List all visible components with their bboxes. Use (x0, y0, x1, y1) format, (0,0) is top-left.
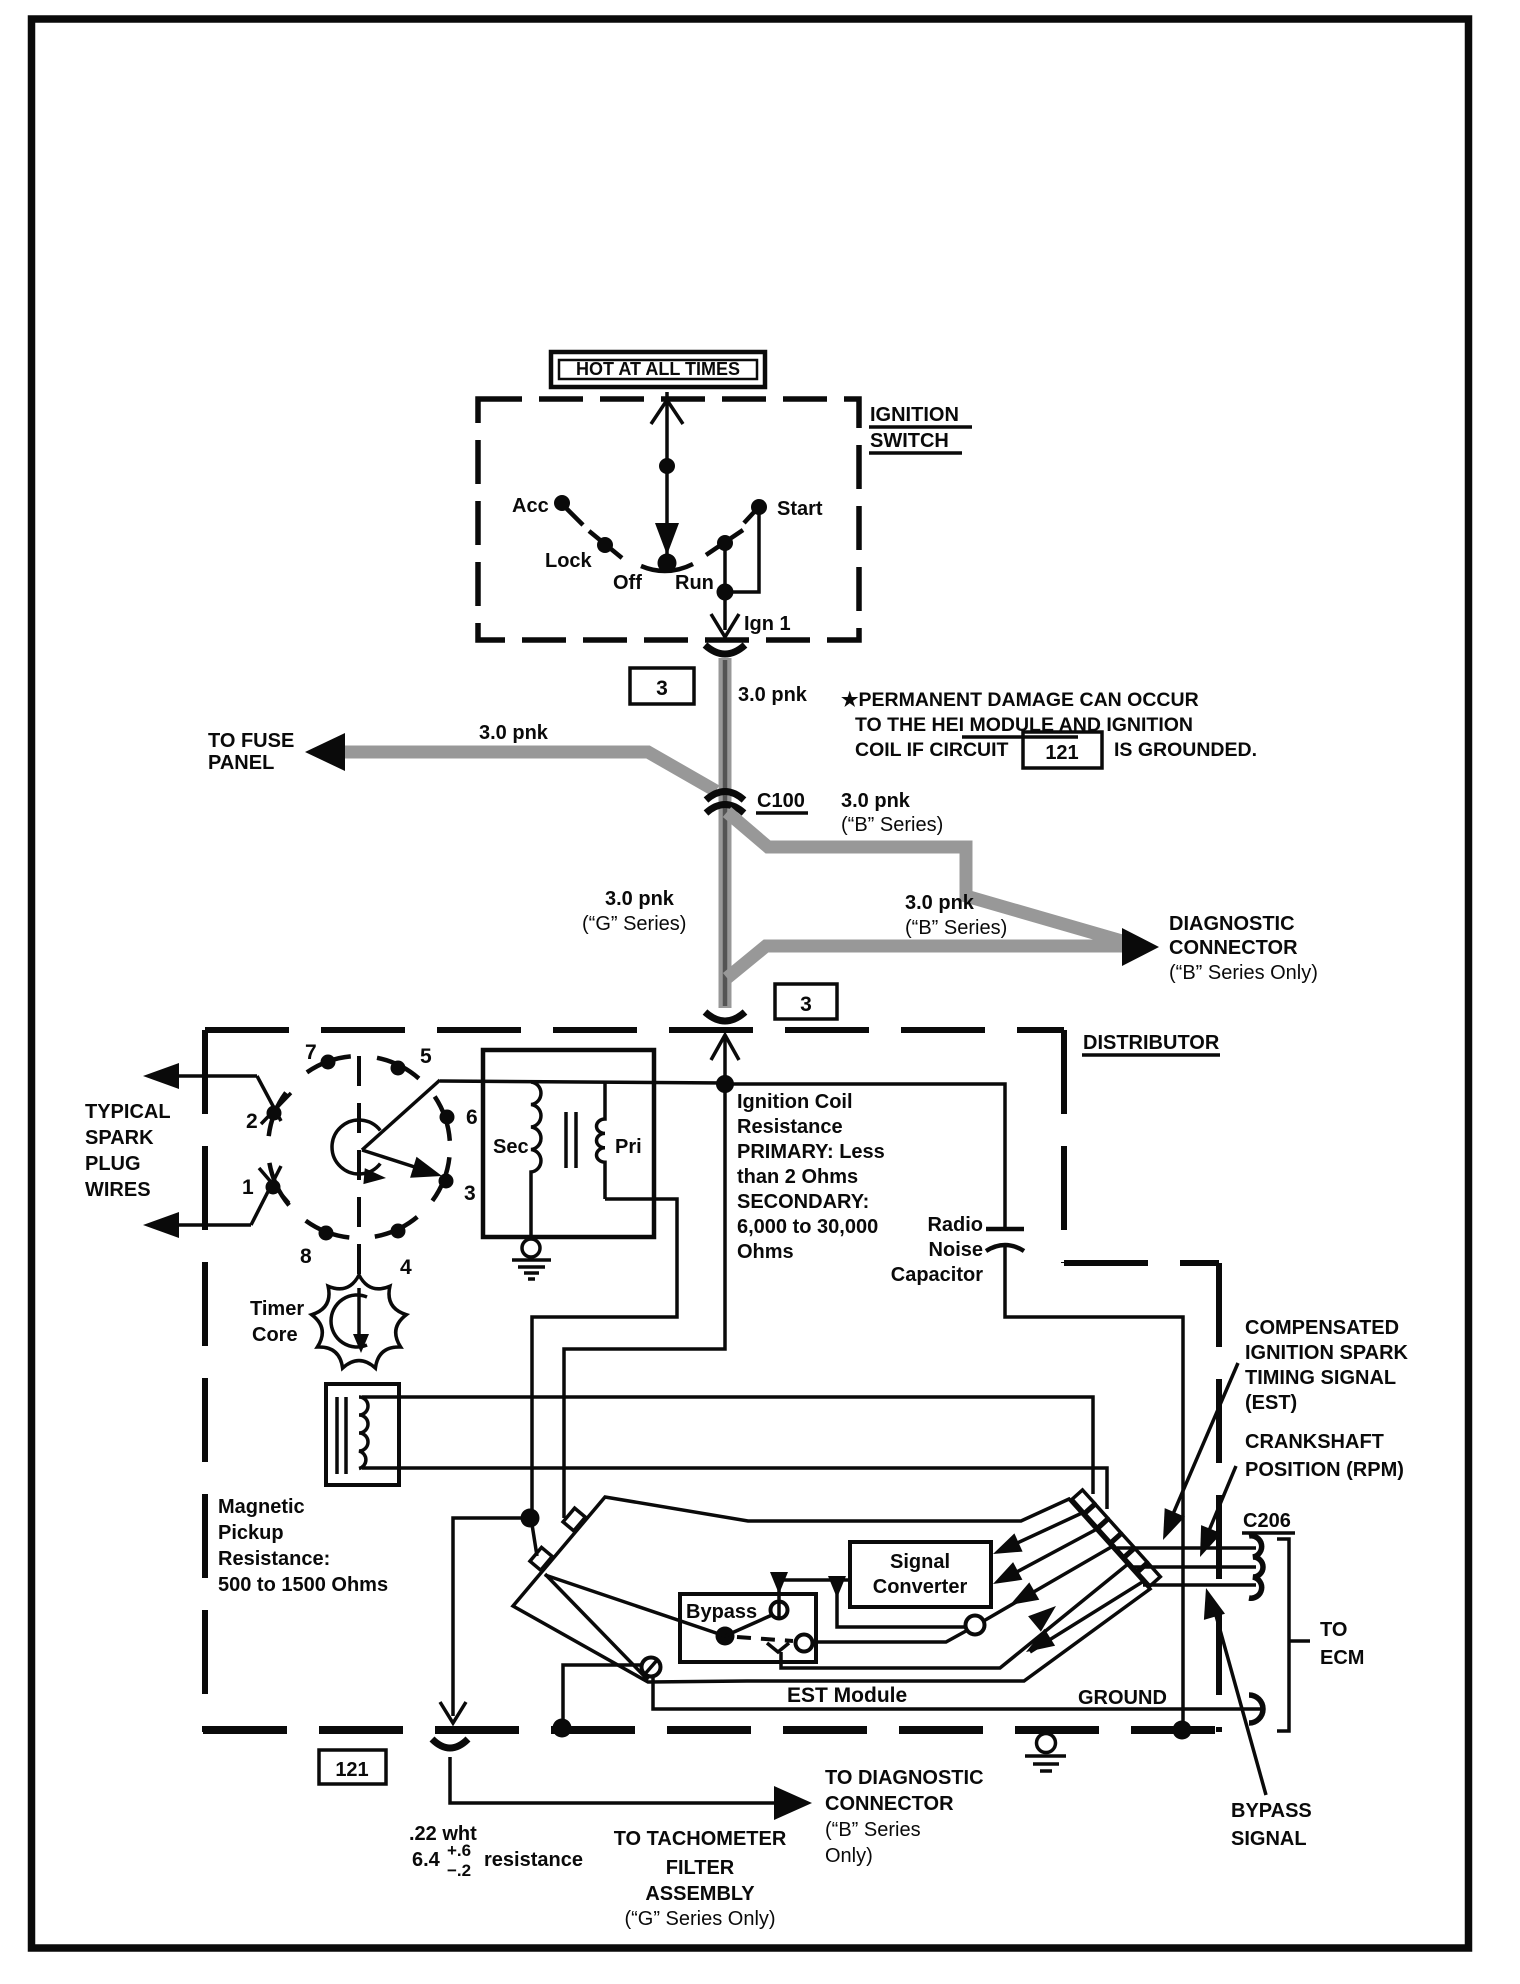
svg-text:3: 3 (800, 993, 812, 1016)
svg-text:2: 2 (246, 1110, 258, 1133)
cap terminal 7 (321, 1055, 336, 1070)
contact Run (717, 535, 733, 551)
wire coil primary to EST tab (532, 1199, 677, 1516)
svg-text:Ohms: Ohms (737, 1241, 794, 1263)
svg-text:TO DIAGNOSTIC: TO DIAGNOSTIC (825, 1767, 984, 1789)
EST module outline (513, 1497, 1150, 1682)
cap terminal 1 (266, 1180, 281, 1195)
connector at Ign 1 (705, 645, 745, 654)
svg-text:DIAGNOSTIC: DIAGNOSTIC (1169, 913, 1295, 935)
wire 3.0 pnk ignition feed (shaded) (719, 658, 732, 1008)
wire Run to Ign1 with Start branch (723, 543, 727, 630)
ground at coil secondary (512, 1239, 551, 1279)
wire EST pin to signal converter lower (1000, 1529, 1097, 1581)
spark plug wire upper (168, 1074, 257, 1078)
terminal circle on EST signal wire (966, 1616, 985, 1635)
svg-text:Pri: Pri (615, 1136, 642, 1158)
svg-text:Sec: Sec (493, 1136, 529, 1158)
node ignition feed junction (716, 1075, 734, 1093)
connector C206 sockets (1249, 1536, 1263, 1598)
ground screw terminal (642, 1658, 661, 1677)
ignition switch dashed box (478, 399, 859, 640)
svg-text:★PERMANENT DAMAGE CAN OCCUR: ★PERMANENT DAMAGE CAN OCCUR (841, 689, 1199, 711)
connector C100 (706, 792, 744, 801)
svg-text:−.2: −.2 (447, 1861, 471, 1880)
svg-text:7: 7 (305, 1041, 317, 1064)
bypass box (680, 1594, 816, 1662)
wire bypass feed from module tab (545, 1575, 725, 1636)
svg-text:5: 5 (420, 1045, 432, 1068)
arrow spark plug wire upper (143, 1063, 179, 1089)
wire junction stub to pickup tab (531, 1518, 537, 1556)
svg-text:PANEL: PANEL (208, 752, 274, 774)
svg-text:IS GROUNDED.: IS GROUNDED. (1114, 739, 1257, 761)
node capacitor ground on housing (1173, 1721, 1192, 1740)
note permanent damage (841, 689, 1257, 768)
connector at distributor (705, 1012, 745, 1021)
wire to fuse panel (shaded) (340, 752, 716, 791)
svg-text:Off: Off (613, 572, 642, 594)
node run-start junction (717, 584, 734, 601)
svg-text:Run: Run (675, 572, 714, 594)
svg-text:C206: C206 (1243, 1510, 1291, 1532)
svg-text:IGNITION SPARK: IGNITION SPARK (1245, 1342, 1409, 1364)
svg-text:Pickup: Pickup (218, 1522, 284, 1544)
capacitor C radio noise (986, 1227, 1024, 1232)
wire pickup lead lower (362, 1468, 1107, 1509)
wire coil feed from rotor line to junction (440, 1081, 727, 1083)
svg-text:HOT AT ALL TIMES: HOT AT ALL TIMES (576, 359, 740, 379)
svg-text:Ign 1: Ign 1 (744, 613, 791, 635)
svg-text:Bypass: Bypass (686, 1601, 757, 1623)
svg-text:Noise: Noise (929, 1239, 983, 1261)
svg-text:Core: Core (252, 1324, 298, 1346)
ground symbol on housing (1025, 1734, 1066, 1772)
svg-text:(“G” Series Only): (“G” Series Only) (624, 1908, 775, 1930)
svg-text:COMPENSATED: COMPENSATED (1245, 1317, 1399, 1339)
svg-text:Signal: Signal (890, 1551, 950, 1573)
bypass contact A (771, 1602, 788, 1619)
node coil primary wire junction (521, 1509, 540, 1528)
arrow spark plug wire lower (143, 1212, 179, 1238)
svg-text:WIRES: WIRES (85, 1179, 151, 1201)
pointer EST label to wire (1167, 1363, 1238, 1528)
svg-text:POSITION (RPM): POSITION (RPM) (1245, 1459, 1404, 1481)
svg-text:3.0 pnk: 3.0 pnk (738, 684, 808, 706)
svg-text:6: 6 (466, 1106, 478, 1129)
contact Off (658, 554, 677, 573)
arrow to diagnostic connector (1122, 928, 1159, 966)
circuit 3 box lower (775, 984, 837, 1019)
svg-text:than 2 Ohms: than 2 Ohms (737, 1166, 858, 1188)
spark plug wire lower (168, 1223, 251, 1227)
arrow Ign 1 down (711, 614, 739, 637)
bypass common tick (767, 1643, 789, 1652)
arrow circuit 121 to housing (440, 1702, 466, 1723)
rotor (332, 1120, 380, 1174)
svg-text:CONNECTOR: CONNECTOR (1169, 937, 1298, 959)
cap terminal 4 (391, 1224, 406, 1239)
svg-text:Start: Start (777, 498, 823, 520)
cap terminal 2 (267, 1106, 282, 1121)
svg-text:SECONDARY:: SECONDARY: (737, 1191, 869, 1213)
wire pickup lead upper (362, 1397, 1093, 1494)
contact Lock (597, 537, 613, 553)
svg-text:C100: C100 (757, 790, 805, 812)
arrow to fuse panel (305, 733, 345, 771)
arrow rotation direction (363, 1168, 386, 1184)
svg-text:COIL IF CIRCUIT: COIL IF CIRCUIT (855, 739, 1009, 761)
bypass contact B (796, 1635, 813, 1652)
cap terminal 3 (439, 1174, 454, 1189)
coil core (564, 1112, 568, 1168)
wire rotor to coil feed (362, 1080, 440, 1150)
pointer RPM label to wire (1203, 1466, 1236, 1545)
svg-text:3.0 pnk: 3.0 pnk (905, 892, 975, 914)
circuit 121 box (319, 1750, 386, 1784)
cap terminal 5 (391, 1061, 406, 1076)
svg-text:ASSEMBLY: ASSEMBLY (645, 1883, 755, 1905)
cap terminal 6 (440, 1110, 455, 1125)
svg-text:IGNITION: IGNITION (870, 404, 959, 426)
contact Acc (554, 495, 570, 511)
svg-text:Only): Only) (825, 1845, 873, 1867)
svg-text:TO: TO (1320, 1619, 1347, 1641)
svg-text:3.0 pnk: 3.0 pnk (605, 888, 675, 910)
HOT AT ALL TIMES power box (551, 352, 765, 387)
svg-text:(“B” Series): (“B” Series) (905, 917, 1007, 939)
pointer bypass label to wire (1212, 1601, 1266, 1795)
dashed throw to contact B (737, 1637, 793, 1641)
cap centerline dashed (357, 1056, 361, 1288)
svg-text:121: 121 (335, 1759, 368, 1781)
timer core star (312, 1275, 407, 1368)
cap terminal 8 (319, 1226, 334, 1241)
svg-text:Resistance:: Resistance: (218, 1548, 330, 1570)
distributor dashed housing (203, 1030, 1219, 1732)
coil secondary winding Sec (531, 1082, 541, 1237)
svg-text:Magnetic: Magnetic (218, 1496, 305, 1518)
wire 121 to tachometer filter (450, 1757, 780, 1803)
svg-text:Capacitor: Capacitor (891, 1264, 983, 1286)
arrow to diagnostic connector (774, 1786, 812, 1820)
EST module connector tab row (1072, 1490, 1160, 1586)
rotor arm (362, 1150, 424, 1170)
svg-text:3: 3 (464, 1182, 476, 1205)
svg-text:CRANKSHAFT: CRANKSHAFT (1245, 1431, 1384, 1453)
svg-text:Lock: Lock (545, 550, 593, 572)
EST module tab upper left (563, 1508, 585, 1531)
svg-text:SWITCH: SWITCH (870, 430, 949, 452)
wire junction down to EST feed tab (564, 1084, 725, 1518)
bypass switch pivot (716, 1627, 735, 1646)
svg-text:PLUG: PLUG (85, 1153, 141, 1175)
contact Start (751, 499, 767, 515)
svg-text:6.4: 6.4 (412, 1849, 441, 1871)
svg-text:Acc: Acc (512, 495, 549, 517)
circuit 3 box (630, 668, 694, 704)
ignition coil box (483, 1050, 654, 1237)
svg-text:(“G” Series): (“G” Series) (582, 913, 686, 935)
svg-text:resistance: resistance (484, 1849, 583, 1871)
svg-text:500 to 1500 Ohms: 500 to 1500 Ohms (218, 1574, 388, 1596)
wire 3.0 pnk B series lower branch (shaded) (727, 946, 1135, 978)
svg-text:CONNECTOR: CONNECTOR (825, 1793, 954, 1815)
svg-text:ECM: ECM (1320, 1647, 1364, 1669)
wire EST to C206 pin 1 (1117, 1546, 1256, 1550)
svg-text:TO TACHOMETER: TO TACHOMETER (614, 1828, 787, 1850)
wire ground screw to housing (563, 1665, 643, 1727)
bypass switch blade (725, 1615, 772, 1636)
svg-text:Timer: Timer (250, 1298, 304, 1320)
wire EST pin to bypass (EST signal) (816, 1546, 1113, 1642)
EST module left wedge inner edges (545, 1574, 648, 1680)
timer core rotation mark (331, 1295, 367, 1347)
svg-text:TIMING SIGNAL: TIMING SIGNAL (1245, 1367, 1396, 1389)
wire battery feed into switch (665, 392, 669, 561)
svg-text:6,000 to 30,000: 6,000 to 30,000 (737, 1216, 878, 1238)
svg-text:Ignition Coil: Ignition Coil (737, 1091, 853, 1113)
distributor cap circle (dashed arcs) (269, 1056, 450, 1237)
svg-text:PRIMARY: Less: PRIMARY: Less (737, 1141, 885, 1163)
wire capacitor to housing ground (1005, 1247, 1183, 1730)
magnetic pickup (326, 1384, 399, 1485)
wire 3.0 pnk B series upper branch (shaded) (727, 812, 1146, 948)
wire EST ground pin (1030, 1581, 1144, 1652)
arrow onto Off contact (655, 523, 679, 555)
wire junction to radio noise capacitor (725, 1084, 1005, 1227)
svg-text:SIGNAL: SIGNAL (1231, 1828, 1307, 1850)
wire ground screw to C206 ground pin (653, 1676, 1262, 1709)
svg-text:TO FUSE: TO FUSE (208, 730, 294, 752)
svg-text:BYPASS: BYPASS (1231, 1800, 1312, 1822)
wire junction to circuit 121 (453, 1518, 530, 1716)
svg-text:1: 1 (242, 1176, 254, 1199)
svg-text:Converter: Converter (873, 1576, 968, 1598)
svg-text:TYPICAL: TYPICAL (85, 1101, 171, 1123)
svg-text:SPARK: SPARK (85, 1127, 154, 1149)
node housing ground (553, 1719, 572, 1738)
arrow rotor tip (410, 1157, 442, 1178)
svg-text:(“B” Series Only): (“B” Series Only) (1169, 962, 1318, 984)
svg-text:4: 4 (400, 1256, 412, 1279)
wire EST reference out (781, 1564, 1128, 1668)
node battery feed (659, 458, 675, 474)
svg-text:(EST): (EST) (1245, 1392, 1297, 1414)
arrow into distributor (711, 1035, 739, 1060)
svg-text:3.0 pnk: 3.0 pnk (479, 722, 549, 744)
wire EST pin to signal converter upper (1000, 1513, 1082, 1551)
svg-text:3: 3 (656, 677, 668, 700)
svg-text:+.6: +.6 (447, 1841, 471, 1860)
arrow up to hot feed (651, 400, 683, 424)
label IGNITION SWITCH (869, 404, 972, 453)
svg-text:(“B” Series): (“B” Series) (841, 814, 943, 836)
svg-text:EST Module: EST Module (787, 1684, 907, 1707)
connector at circuit 121 (432, 1739, 468, 1748)
wire bypass contact A up to signal converter (779, 1580, 850, 1618)
wire EST to C206 pin 3 (1143, 1583, 1256, 1587)
svg-text:3.0 pnk: 3.0 pnk (841, 790, 911, 812)
wire EST to C206 pin 2 (1131, 1565, 1256, 1569)
svg-text:(“B” Series: (“B” Series (825, 1819, 921, 1841)
bracket to ECM (1277, 1539, 1289, 1731)
svg-text:121: 121 (1045, 742, 1078, 764)
EST module tab lower left (530, 1547, 552, 1570)
svg-text:Radio: Radio (927, 1214, 983, 1236)
connector C206 ground socket (1249, 1695, 1263, 1723)
svg-text:8: 8 (300, 1245, 312, 1268)
signal converter box (850, 1542, 991, 1607)
svg-text:Resistance: Resistance (737, 1116, 843, 1138)
svg-text:FILTER: FILTER (666, 1857, 735, 1879)
wire signal converter to EST terminal circle (837, 1580, 966, 1627)
coil primary winding Pri (596, 1083, 605, 1199)
svg-text:DISTRIBUTOR: DISTRIBUTOR (1083, 1032, 1220, 1054)
svg-text:GROUND: GROUND (1078, 1687, 1167, 1709)
